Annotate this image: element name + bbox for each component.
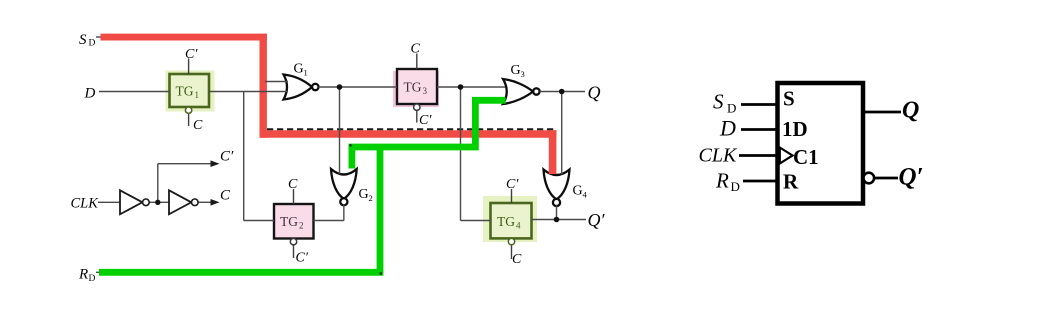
NOR gate G4 body (points down) (544, 170, 570, 200)
arrowhead C output (211, 199, 220, 206)
NOR gate G2 output bubble (340, 198, 347, 205)
wire G3 output to Q (540, 91, 585, 93)
svg-text:2: 2 (299, 221, 304, 231)
wire node c branch to TG4 left input (horizontal) (461, 220, 491, 222)
svg-text:G: G (359, 187, 369, 202)
junction node b dot (337, 84, 343, 90)
svg-text:1D: 1D (782, 117, 808, 141)
wire inverter 1 output to inverter 2 (149, 201, 169, 203)
wire G2 output back to TG2 right input (314, 220, 344, 222)
svg-text:C1: C1 (793, 145, 819, 169)
svg-text:C: C (220, 188, 231, 204)
TG1 control bubble (185, 107, 191, 113)
transmission gate TG1 box (170, 74, 210, 107)
wire TG4 output to Q' (532, 219, 587, 221)
svg-text:S: S (79, 32, 87, 48)
wire TG1 output to G1 lower input (209, 91, 288, 93)
svg-text:R: R (715, 169, 729, 193)
svg-text:4: 4 (516, 221, 521, 231)
NOR gate G3 body (503, 79, 533, 104)
junction Q' node dot (554, 217, 560, 223)
S_D highlight wire (red): left vertical segment (260, 34, 267, 138)
svg-text:3: 3 (423, 86, 428, 96)
svg-text:1: 1 (195, 90, 200, 100)
svg-text:D: D (89, 274, 96, 284)
NOR gate G2 body (points down) (331, 169, 357, 199)
wire C' branch vertical (157, 164, 159, 203)
wire G2 output stem down (343, 204, 345, 220)
wire TG3 output to G3 upper input (437, 86, 505, 88)
svg-text:C′: C′ (419, 113, 432, 128)
wire CLK input to inverter 1 (98, 201, 120, 203)
svg-text:1: 1 (304, 68, 308, 78)
svg-text:G: G (294, 62, 304, 77)
flip-flop symbol box (778, 83, 864, 204)
wire S_D to G1 upper input (265, 81, 288, 83)
svg-text:D: D (719, 116, 736, 141)
dynamic clock input triangle (780, 148, 793, 164)
TG4 control bubble (508, 238, 514, 244)
svg-text:C: C (288, 177, 298, 192)
svg-text:3: 3 (521, 69, 525, 79)
svg-text:CLK: CLK (71, 196, 100, 212)
svg-text:TG: TG (280, 214, 298, 229)
wire node b branch down to G2 left input (339, 87, 341, 174)
junction node c dot (458, 84, 464, 90)
S_D highlight wire (red): top horizontal segment (101, 34, 267, 41)
gates layer (284, 75, 570, 207)
NOR gate G4 output bubble (553, 199, 560, 206)
svg-text:Q′: Q′ (588, 210, 606, 230)
transmission gate TG3 box (397, 69, 437, 104)
junction Q node dot (559, 89, 565, 95)
wire end artifact at R_D green corner (380, 272, 382, 274)
TG3 C' control stub (bottom) (416, 110, 418, 122)
svg-text:C′: C′ (220, 149, 234, 165)
TG4 C' control stub (top) (511, 189, 513, 203)
TG2 control bubble (290, 239, 296, 245)
S_D highlight wire (red): lower horizontal segment (260, 130, 557, 138)
wire stub from S_D label to red highlight (96, 36, 101, 38)
svg-text:C: C (411, 42, 421, 57)
pin wire D input (741, 128, 778, 131)
svg-text:C′: C′ (296, 251, 309, 266)
TG2 C' control stub (bottom) (293, 245, 295, 258)
wire D input to TG1 (99, 91, 170, 93)
transmission gate TG3 pink halo (393, 71, 439, 107)
junction CLK inverter node dot (155, 200, 160, 205)
TG control stubs and bubbles (189, 54, 512, 260)
svg-text:S: S (783, 87, 795, 111)
pin wire Q' output (874, 177, 898, 180)
svg-text:R: R (783, 170, 799, 194)
wire C' branch horizontal to arrow (158, 163, 213, 165)
transmission gate TG1 highlight glow (166, 71, 215, 112)
wire Q node down to G4 right input (561, 92, 563, 175)
wire node c branch down to TG4 (vertical) (460, 87, 462, 221)
transmission gate TG4 highlight glow (483, 196, 537, 242)
wire stub R_D label to green highlight (96, 271, 100, 273)
TG1 C' control stub (top) (188, 59, 190, 75)
svg-text:G: G (511, 63, 521, 78)
pin wire Q output (863, 111, 901, 114)
transmission gate TG4 box (491, 203, 532, 238)
R_D highlight wire (green): branch to G2 and G3 (352, 100, 506, 168)
svg-text:D: D (727, 101, 736, 116)
wire G1 output node b to TG3 (319, 86, 397, 88)
TG3 control bubble (414, 104, 420, 110)
svg-text:D: D (89, 39, 96, 49)
wire node a branch down to TG2 (vertical) (243, 92, 245, 221)
wire G4 output stem down to Q' node (556, 205, 558, 220)
svg-text:C′: C′ (185, 47, 198, 62)
transmission gate TG2 box (274, 204, 314, 239)
svg-text:G: G (573, 184, 583, 199)
svg-text:TG: TG (497, 214, 515, 229)
NOR gate G1 output bubble (312, 84, 318, 90)
TG4 C control stub (bottom) (511, 245, 513, 259)
svg-text:CLK: CLK (699, 145, 738, 167)
TG3 C control stub (top) (416, 54, 418, 70)
svg-text:S: S (713, 90, 724, 114)
wire node a branch to TG2 left input (horizontal) (244, 220, 274, 222)
svg-text:C: C (193, 118, 203, 133)
svg-text:Q: Q (588, 83, 601, 103)
svg-text:C′: C′ (506, 177, 519, 192)
inverter 2 (CLK buffer) (169, 190, 191, 214)
dashed S_D net wire over red highlight (267, 128, 554, 130)
svg-text:R: R (78, 267, 88, 283)
Q' inversion bubble (864, 173, 875, 184)
svg-text:Q: Q (902, 98, 919, 124)
svg-text:2: 2 (369, 193, 373, 203)
svg-text:Q′: Q′ (899, 164, 924, 191)
NOR gate G1 body (284, 75, 313, 100)
svg-text:D: D (731, 179, 740, 194)
R_D highlight wire (green): bottom horizontal + right vertical (99, 147, 380, 272)
arrowhead C' output (211, 160, 220, 167)
TG2 C control stub (top) (293, 189, 295, 204)
pin wire R_D input (743, 180, 778, 183)
TG1 C control stub (bottom) (188, 113, 190, 126)
S_D highlight wire (red): vertical into G4 input (549, 130, 557, 174)
inverter 1 (CLK buffer) (120, 190, 142, 214)
svg-text:TG: TG (176, 84, 194, 99)
NOR gate G3 output bubble (533, 88, 539, 94)
svg-text:C: C (512, 252, 522, 267)
wire end artifact at green corner (349, 144, 351, 146)
svg-text:D: D (84, 86, 96, 102)
wire inverter 2 output to C arrow (198, 201, 213, 203)
thin wires (96, 37, 586, 272)
pin wire S_D input (741, 103, 778, 106)
pin wire CLK input (739, 154, 778, 157)
svg-text:TG: TG (404, 80, 422, 95)
